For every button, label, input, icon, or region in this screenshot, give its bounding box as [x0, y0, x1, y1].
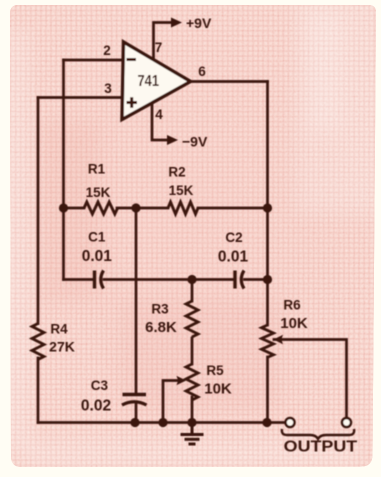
wire R5 wiper to ground rail: [163, 381, 178, 423]
output terminal right: [342, 418, 351, 427]
svg-text:OUTPUT: OUTPUT: [284, 439, 358, 456]
-9V supply arrowhead: [167, 135, 178, 145]
node R5 wiper/ground rail junction: [158, 418, 167, 427]
svg-text:R3: R3: [151, 302, 169, 317]
svg-text:R5: R5: [206, 363, 224, 378]
capacitor C1: [95, 271, 104, 289]
wire R3 top lead: [191, 280, 194, 302]
svg-text:2: 2: [103, 43, 111, 58]
resistor R2: [168, 202, 198, 214]
wire from R1 node down to C row: [62, 208, 65, 280]
wire capacitor row: [64, 278, 268, 281]
svg-text:−9V: −9V: [182, 134, 208, 150]
wire right vertical (output net): [266, 82, 269, 326]
node C1/C2/R3 junction: [187, 275, 196, 284]
wire resistor row: [64, 207, 268, 210]
+9V supply arrowhead: [171, 18, 182, 28]
capacitor C3: [122, 395, 147, 406]
svg-text:10K: 10K: [280, 315, 308, 332]
svg-text:4: 4: [155, 107, 163, 122]
node C3/ground rail junction: [130, 418, 139, 427]
wire pin3 stub: [38, 96, 123, 99]
R5 wiper arrowhead: [177, 376, 187, 385]
svg-text:R1: R1: [88, 162, 106, 177]
svg-text:3: 3: [104, 81, 112, 96]
svg-text:0.01: 0.01: [82, 248, 113, 265]
output terminal left: [286, 418, 295, 427]
wire left vertical from pin2: [62, 60, 65, 208]
node R2/output junction: [263, 203, 272, 212]
node C2/output junction: [263, 275, 272, 284]
node R1/R2/C3 junction: [131, 203, 140, 212]
svg-text:15K: 15K: [169, 183, 194, 198]
svg-text:C3: C3: [91, 378, 109, 393]
resistor R1: [84, 202, 118, 214]
resistor R4: [32, 324, 44, 360]
wire R3-R5 link: [191, 338, 194, 364]
svg-text:C2: C2: [225, 230, 242, 245]
wire below R4: [37, 358, 40, 423]
svg-text:R6: R6: [283, 298, 301, 313]
node pin2/R1/C1 junction: [59, 203, 68, 212]
wire below C3: [135, 402, 138, 423]
op-amp minus sign: [127, 58, 137, 61]
svg-text:741: 741: [138, 73, 160, 90]
svg-text:R2: R2: [168, 165, 185, 180]
op-amp U1 741: [122, 42, 191, 120]
wire pin6 output: [191, 80, 268, 83]
output brace: [282, 429, 354, 439]
svg-text:7: 7: [155, 40, 163, 55]
wire pin7 to +9V: [154, 23, 173, 61]
wire left vertical from pin3 (through R4): [37, 98, 40, 324]
svg-text:R4: R4: [50, 322, 68, 337]
wire below R5: [191, 397, 194, 423]
svg-text:+9V: +9V: [186, 15, 212, 31]
svg-text:0.02: 0.02: [81, 398, 111, 415]
resistor R3: [186, 301, 198, 337]
wire R6 wiper to right output terminal: [274, 340, 347, 419]
node R5/ground junction: [187, 418, 196, 427]
wire bottom ground rail: [38, 421, 286, 424]
svg-text:6.8K: 6.8K: [145, 319, 177, 336]
potentiometer R6: [262, 325, 274, 357]
svg-text:C1: C1: [88, 230, 106, 245]
svg-text:15K: 15K: [86, 185, 111, 200]
op-amp plus sign: [127, 97, 138, 108]
wire pin4 to -9V: [152, 103, 168, 140]
wire pin2 stub: [64, 59, 125, 62]
R6 wiper arrowhead: [274, 335, 284, 344]
svg-text:10K: 10K: [204, 381, 232, 398]
ground: [181, 423, 204, 445]
svg-text:6: 6: [198, 64, 206, 79]
capacitor C2: [235, 271, 244, 289]
svg-text:0.01: 0.01: [218, 249, 249, 266]
node R6/output terminal junction: [262, 418, 271, 427]
svg-text:27K: 27K: [49, 339, 75, 355]
wire centre vertical to C3: [135, 208, 138, 392]
wire right vertical below R6: [266, 357, 269, 423]
potentiometer R5: [186, 364, 198, 400]
